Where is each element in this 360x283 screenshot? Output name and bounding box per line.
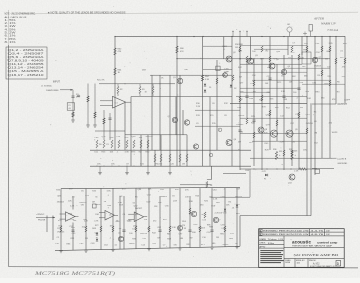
svg-text:5W: 5W [174, 245, 177, 247]
svg-text:33K: 33K [147, 228, 151, 230]
svg-text:REVISED PER ECN 2215 J.W.: REVISED PER ECN 2215 J.W. [263, 234, 310, 236]
svg-text:2.2K: 2.2K [196, 106, 201, 108]
svg-text:100PF: 100PF [331, 132, 338, 134]
svg-text:NONE: NONE [285, 262, 290, 264]
svg-text:DRAWN: DRAWN [260, 238, 267, 241]
svg-text:TH1: TH1 [303, 50, 307, 52]
svg-text:J1 SIGNAL: J1 SIGNAL [41, 85, 53, 88]
svg-text:33K: 33K [184, 69, 188, 71]
svg-text:100PF: 100PF [344, 99, 351, 101]
svg-text:10K: 10K [265, 83, 269, 85]
svg-text:10K: 10K [73, 220, 77, 222]
svg-text:Q15 - MJ2955 A: Q15 - MJ2955 A [8, 70, 45, 73]
svg-text:WARM UP: WARM UP [321, 22, 336, 26]
svg-text:10PF: 10PF [224, 71, 230, 73]
svg-text:1N4003: 1N4003 [160, 196, 168, 198]
svg-text:Q5,6 - 2N5210A: Q5,6 - 2N5210A [8, 56, 45, 59]
svg-text:APPVD: APPVD [260, 245, 267, 248]
svg-text:J.W.: J.W. [326, 234, 330, 236]
svg-text:6. 1%: 6. 1% [5, 36, 16, 38]
svg-text:5W: 5W [189, 237, 192, 239]
svg-text:1. 5%: 1. 5% [5, 20, 16, 22]
svg-text:PULSE: PULSE [38, 219, 46, 221]
svg-text:CHECK: CHECK [260, 243, 267, 245]
svg-text:15K: 15K [226, 205, 230, 207]
svg-text:15K: 15K [158, 202, 162, 204]
svg-text:15K: 15K [154, 206, 158, 208]
svg-text:GROUND: GROUND [338, 163, 348, 165]
svg-text:Q13,14 - 2N6254: Q13,14 - 2N6254 [8, 67, 45, 70]
svg-text:2N5210: 2N5210 [235, 196, 243, 198]
svg-text:1N4003: 1N4003 [198, 227, 206, 229]
svg-text:Q7,8,9,10 - 40409: Q7,8,9,10 - 40409 [8, 60, 45, 63]
svg-text:10K: 10K [185, 196, 189, 198]
svg-text:Q16,17 - 2N5210: Q16,17 - 2N5210 [8, 74, 45, 77]
svg-text:1N4003: 1N4003 [57, 232, 65, 234]
svg-text:10K: 10K [68, 200, 72, 202]
svg-text:A-352: A-352 [313, 263, 320, 266]
svg-text:5. 2W: 5. 2W [5, 33, 18, 35]
svg-text:1N4003: 1N4003 [314, 66, 322, 68]
svg-text:5W: 5W [157, 238, 160, 240]
svg-text:2.2K: 2.2K [294, 171, 299, 173]
svg-text:47K: 47K [332, 99, 336, 101]
svg-text:3.3K: 3.3K [281, 91, 286, 93]
svg-text:2.2K: 2.2K [70, 206, 75, 208]
svg-text:15K: 15K [139, 137, 143, 139]
svg-text:47K: 47K [306, 91, 310, 93]
svg-text:R36: R36 [273, 149, 276, 151]
svg-text:100PF: 100PF [129, 243, 136, 245]
svg-text:5W: 5W [139, 152, 142, 154]
svg-text:R2: R2 [120, 89, 122, 91]
svg-text:5W: 5W [300, 107, 303, 109]
svg-text:15K: 15K [252, 75, 256, 77]
svg-text:1N4003: 1N4003 [236, 124, 244, 126]
svg-text:2N5210: 2N5210 [146, 136, 154, 138]
svg-text:SHORT: SHORT [135, 208, 143, 210]
svg-text:•: • [270, 26, 271, 30]
svg-text:1N4003: 1N4003 [57, 201, 65, 203]
svg-text:2.2K: 2.2K [280, 141, 285, 143]
svg-text:.05: .05 [68, 108, 71, 110]
svg-text:8. 1%: 8. 1% [5, 42, 16, 44]
svg-text:2.2K 1W: 2.2K 1W [215, 213, 223, 215]
svg-text:2.2K: 2.2K [84, 221, 89, 223]
svg-text:Q11,12 - 2N3055: Q11,12 - 2N3055 [8, 63, 45, 66]
svg-text:MC7518G MC7751R(T): MC7518G MC7751R(T) [33, 272, 115, 277]
svg-text:4.7K: 4.7K [262, 171, 267, 173]
svg-text:4-8-76: 4-8-76 [311, 234, 325, 236]
svg-text:15K: 15K [55, 243, 59, 245]
svg-text:D1: D1 [209, 87, 211, 89]
svg-text:OUTPUT: OUTPUT [338, 104, 348, 106]
svg-text:3.3K: 3.3K [189, 201, 194, 203]
svg-text:INPUT: INPUT [53, 82, 60, 84]
svg-text:1M: 1M [109, 226, 112, 228]
svg-text:+28VDC: +28VDC [36, 214, 45, 216]
svg-text:1M: 1M [216, 237, 219, 239]
svg-text:47K: 47K [185, 190, 189, 192]
svg-text:3.3K: 3.3K [172, 227, 177, 229]
svg-text:2. 1%: 2. 1% [5, 23, 16, 25]
svg-text:10K: 10K [148, 189, 152, 191]
svg-text:1M: 1M [182, 164, 185, 166]
svg-text:D2: D2 [234, 88, 236, 90]
svg-text:Q13: Q13 [288, 183, 292, 185]
svg-text:100MV RMS: 100MV RMS [46, 90, 59, 92]
svg-text:2N5210: 2N5210 [306, 123, 314, 125]
svg-text:5W: 5W [238, 141, 241, 143]
svg-text:5-7-74: 5-7-74 [278, 239, 283, 241]
svg-text:REVISED PER ECN 2140 J.W.: REVISED PER ECN 2140 J.W. [263, 231, 310, 233]
svg-text:15K: 15K [97, 164, 101, 166]
svg-text:DWG NO: DWG NO [309, 260, 316, 262]
svg-text:15K: 15K [303, 150, 307, 152]
svg-text:F1: F1 [264, 178, 266, 180]
svg-text:1M: 1M [314, 133, 317, 135]
svg-text:2N5210: 2N5210 [140, 233, 148, 235]
svg-text:7. ±5%: 7. ±5% [5, 39, 16, 41]
svg-text:NOTE - UNLESS OTHERWISE SPEC.: NOTE - UNLESS OTHERWISE SPEC. [5, 12, 36, 15]
svg-text:100PF: 100PF [238, 115, 245, 117]
svg-text:R4 2.7K: R4 2.7K [97, 80, 105, 82]
svg-text:7.50 mA: 7.50 mA [327, 28, 339, 32]
svg-text:4. 5%: 4. 5% [5, 29, 16, 31]
svg-text:100PF: 100PF [95, 204, 102, 206]
svg-text:5W: 5W [85, 238, 88, 240]
svg-text:5W: 5W [81, 205, 84, 207]
svg-text:322 POWER AMP BD: 322 POWER AMP BD [293, 253, 339, 257]
svg-text:15K: 15K [144, 219, 148, 221]
svg-text:(+)24V B: (+)24V B [338, 159, 347, 161]
svg-text:10K: 10K [110, 152, 114, 154]
svg-text:Q1,2 - 2N5210A: Q1,2 - 2N5210A [8, 49, 45, 52]
svg-text:3.3K: 3.3K [205, 79, 210, 81]
svg-text:4.7K: 4.7K [94, 220, 99, 222]
svg-text:★ NOTE: QUALITY OF THE LEADS: ★ NOTE: QUALITY OF THE LEADS BE GROUNDED… [48, 12, 126, 15]
svg-text:15K: 15K [289, 81, 293, 83]
svg-text:1M: 1M [325, 59, 328, 61]
svg-text:15K: 15K [111, 164, 115, 166]
svg-text:2.2K: 2.2K [213, 199, 218, 201]
svg-text:3. 1W: 3. 1W [5, 26, 18, 28]
svg-text:5W: 5W [279, 151, 282, 153]
svg-text:47K: 47K [118, 51, 122, 53]
svg-text:AFTER: AFTER [313, 17, 324, 21]
svg-text:100PF: 100PF [222, 244, 229, 246]
svg-text:J.W.: J.W. [326, 231, 330, 233]
svg-text:R.Moss: R.Moss [268, 243, 275, 245]
svg-text:3.3K: 3.3K [106, 190, 111, 192]
svg-text:Q3,4 - 2N5087: Q3,4 - 2N5087 [8, 52, 46, 55]
svg-text:acoustic: acoustic [292, 240, 311, 245]
svg-text:1M: 1M [235, 47, 238, 49]
svg-text:ALL CAPS IN UF: ALL CAPS IN UF [5, 16, 28, 19]
svg-text:T.Graham: T.Graham [268, 239, 277, 241]
svg-text:1N4003: 1N4003 [290, 151, 298, 153]
svg-text:3.3K: 3.3K [125, 152, 130, 154]
svg-text:2N5210: 2N5210 [155, 164, 163, 166]
svg-text:1M: 1M [239, 76, 242, 78]
svg-text:10K: 10K [239, 99, 243, 101]
svg-text:4-4-75: 4-4-75 [311, 231, 325, 233]
svg-text:3.3K: 3.3K [221, 228, 226, 230]
svg-text:control corp: control corp [317, 240, 338, 244]
svg-text:47K: 47K [58, 220, 62, 222]
